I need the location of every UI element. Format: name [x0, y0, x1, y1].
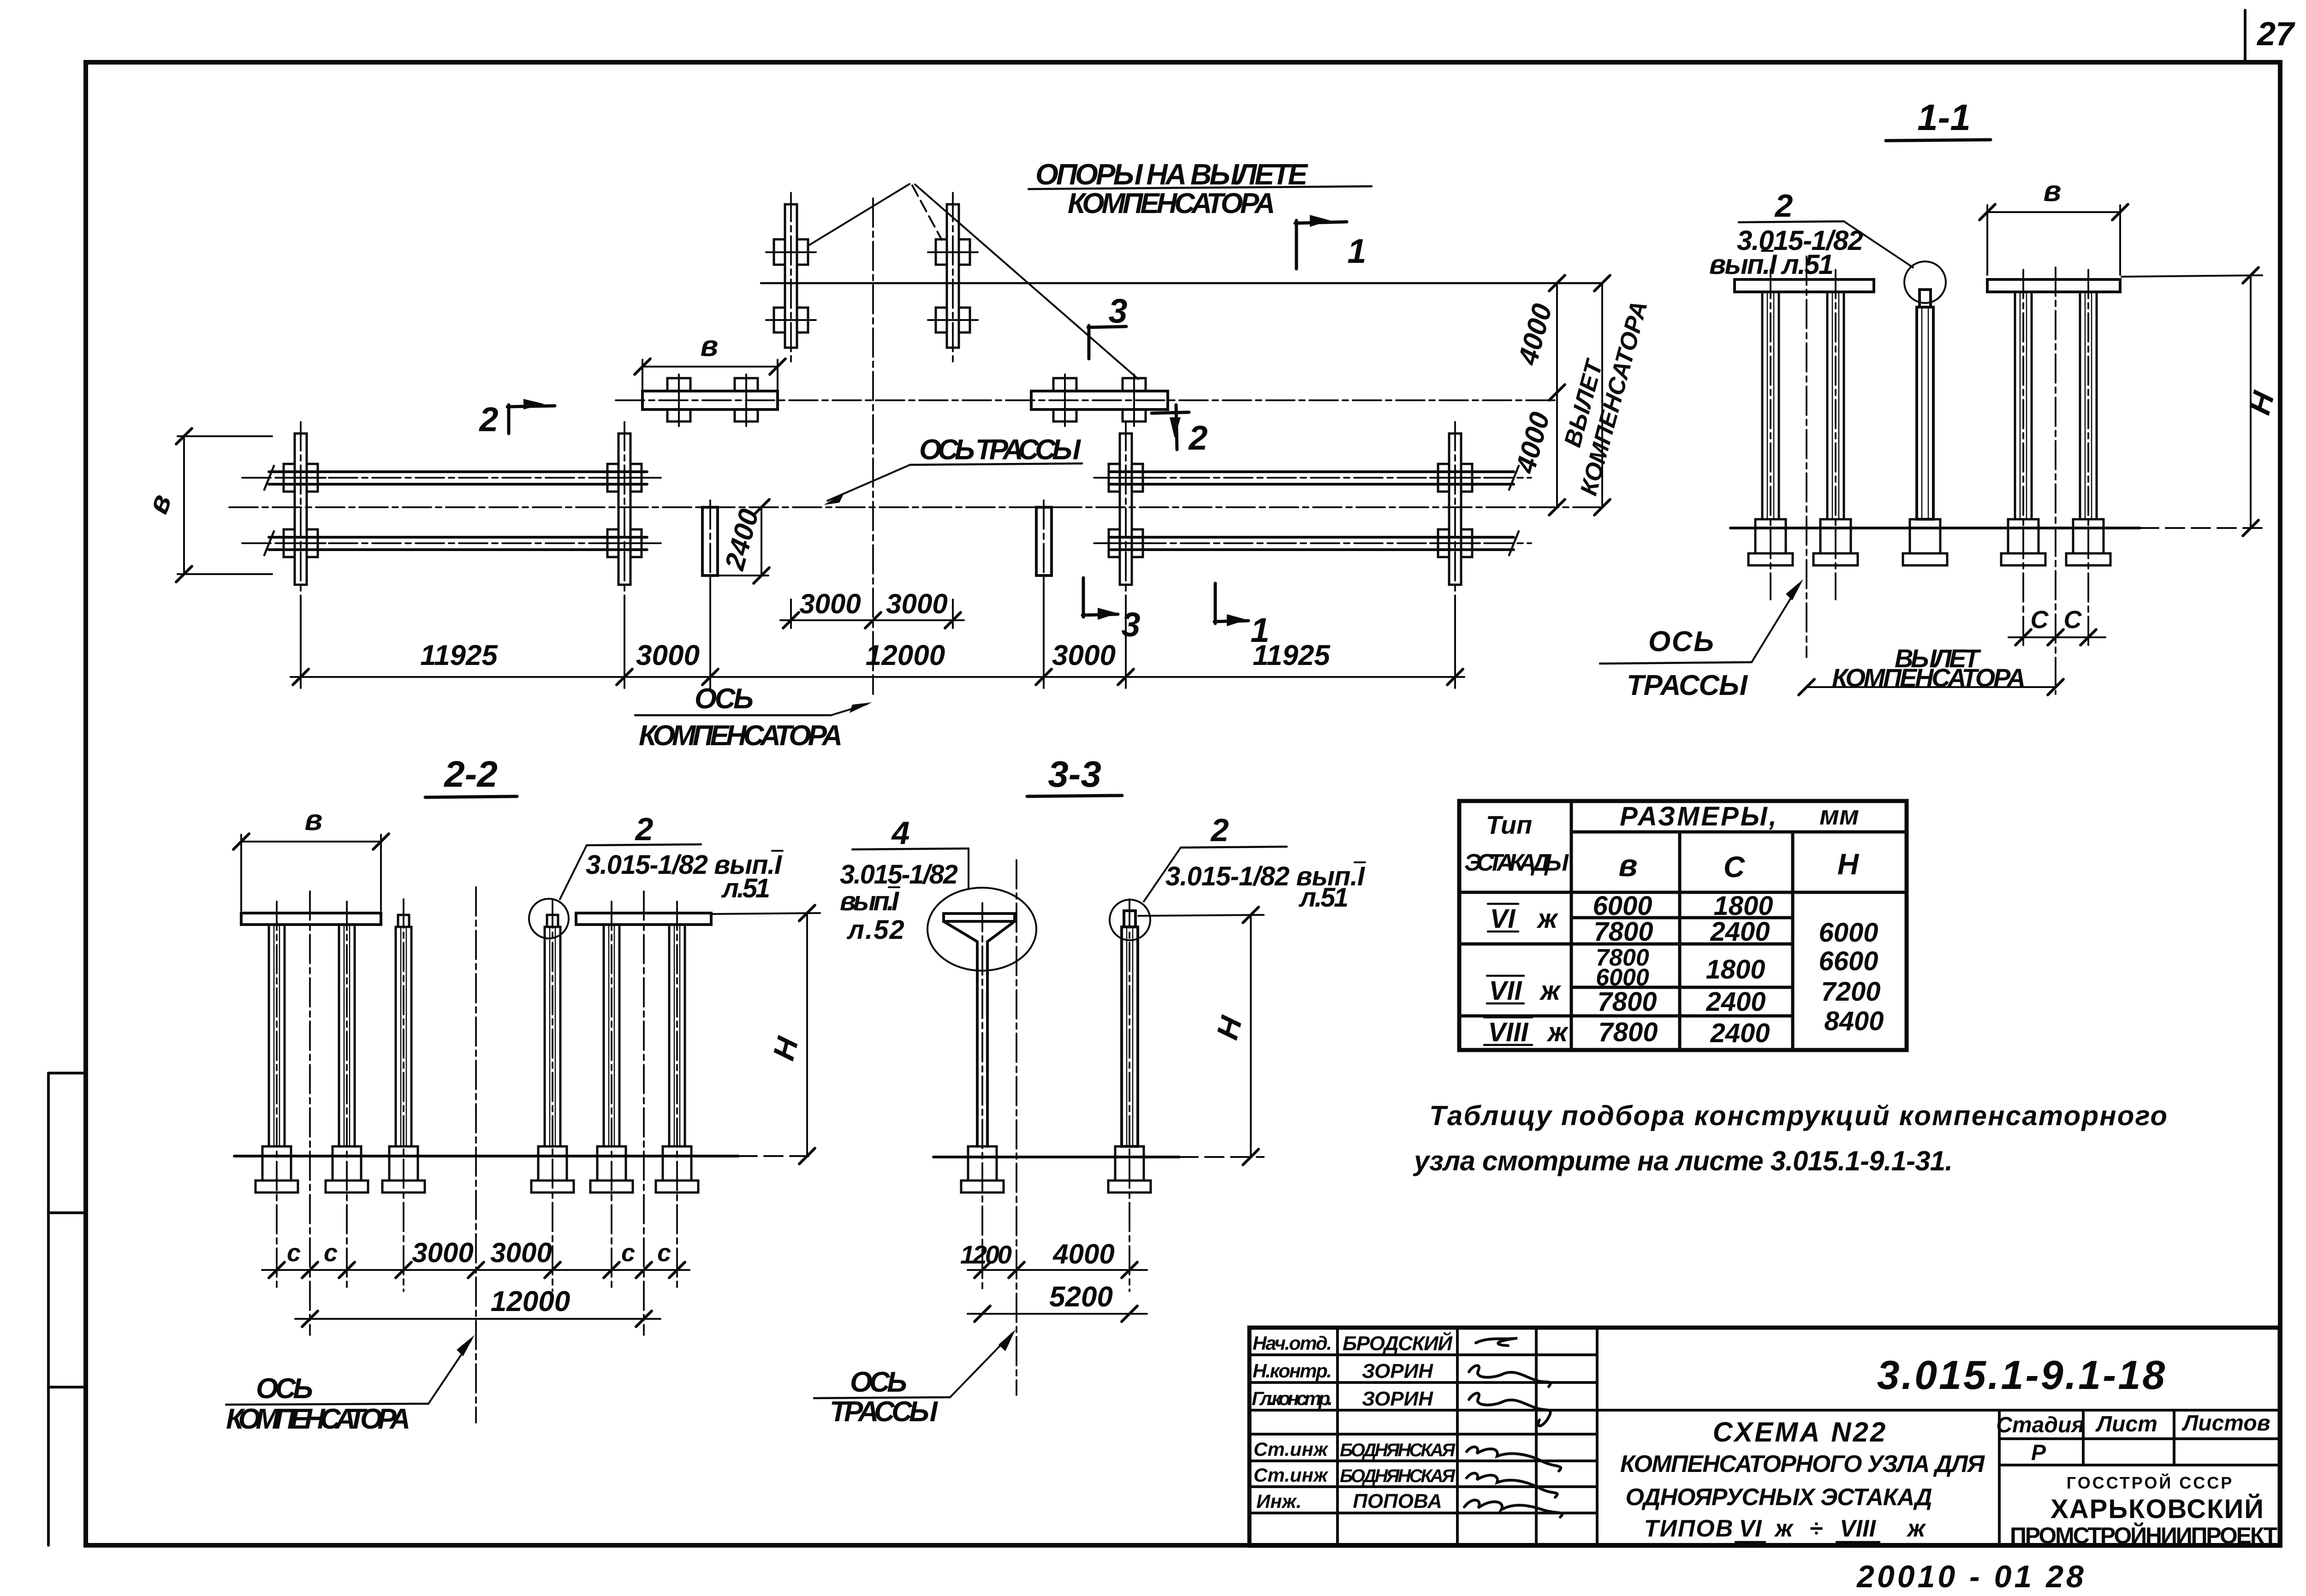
svg-text:2: 2 — [635, 811, 654, 847]
loop lower support bar, left — [642, 391, 778, 409]
svg-text:Гл.констр.: Гл.констр. — [1252, 1388, 1333, 1409]
svg-text:3000: 3000 — [1052, 640, 1116, 671]
svg-text:2: 2 — [1210, 812, 1229, 848]
dimension row с с / 3000 3000 / с с (2-2) — [262, 1237, 689, 1278]
column 6 — [669, 925, 685, 1146]
svg-text:2: 2 — [1774, 188, 1793, 224]
dimension С С — [2009, 606, 2105, 645]
callout 2 / 3.015-1/82 вып.I л.51 (2-2) — [560, 811, 783, 903]
section marker 3 (lower) — [1082, 578, 1141, 644]
svg-text:ОСЬ: ОСЬ — [695, 683, 754, 715]
label ОСЬ КОМПЕНСАТОРА (2-2) — [226, 1335, 475, 1435]
svg-text:2400: 2400 — [1710, 917, 1770, 947]
column 5 — [604, 925, 619, 1146]
bolt cluster on right bar — [1123, 374, 1146, 426]
section marker 3 (upper) — [1088, 292, 1128, 359]
svg-text:3000: 3000 — [636, 640, 700, 671]
pipe-run traverse support, plan, x=3155 — [1430, 422, 1480, 596]
svg-text:VIII: VIII — [1840, 1515, 1877, 1542]
svg-text:÷: ÷ — [1810, 1515, 1823, 1542]
svg-text:СХЕМА N22: СХЕМА N22 — [1713, 1417, 1888, 1448]
svg-text:Н.контр.: Н.контр. — [1253, 1360, 1332, 1382]
svg-text:6600: 6600 — [1819, 946, 1878, 976]
section title 2-2 — [425, 754, 517, 797]
svg-text:5200: 5200 — [1049, 1281, 1113, 1313]
section marker 2 (right of loop) — [1152, 405, 1208, 457]
svg-text:л.52: л.52 — [846, 915, 905, 945]
column 3 (free) — [396, 915, 411, 1146]
underlines for VI / VIII in title — [1735, 1541, 1765, 1543]
svg-text:7200: 7200 — [1821, 977, 1880, 1007]
title block outer border — [1249, 1328, 2280, 1546]
svg-text:ОСЬ: ОСЬ — [1648, 626, 1714, 658]
svg-text:Инж.: Инж. — [1256, 1490, 1302, 1512]
row label VII ж — [1487, 976, 1562, 1006]
left slab 2-2 — [241, 913, 381, 925]
svg-text:2400: 2400 — [719, 506, 765, 574]
svg-text:ж: ж — [1774, 1515, 1794, 1542]
svg-text:3000: 3000 — [886, 588, 947, 619]
svg-text:4000: 4000 — [1052, 1239, 1114, 1270]
ground line 1-1 — [1730, 527, 2140, 529]
svg-text:2: 2 — [1188, 419, 1207, 457]
callout 4 / 3.015-1/82 вып.I л.52 (T column) — [840, 815, 969, 945]
T-column — [944, 914, 1015, 1146]
dimension H (2-2) — [713, 905, 820, 1164]
svg-text:БОДНЯНСКАЯ: БОДНЯНСКАЯ — [1340, 1440, 1456, 1460]
svg-text:1-1: 1-1 — [1917, 97, 1971, 138]
svg-text:Стадия: Стадия — [1996, 1413, 2084, 1437]
svg-text:КОМПЕНСАТОРА: КОМПЕНСАТОРА — [226, 1403, 410, 1435]
upper pipe run, left half — [242, 466, 666, 490]
pipe-run traverse support, plan, x=652 — [276, 422, 326, 596]
dimension в (loop bar) — [635, 329, 785, 390]
svg-text:Н: Н — [766, 1033, 805, 1063]
dimension 5200 (3-3) — [968, 1281, 1147, 1322]
dimension ВЫЛЕТ КОМПЕНСАТОРА vertical — [1559, 275, 1653, 515]
dimension 1200 / 4000 (3-3) — [960, 1239, 1147, 1278]
callout 2 / 3.015-1/82 вып.I л.51 (column 2) — [1144, 812, 1366, 913]
svg-text:VI: VI — [1490, 904, 1516, 934]
dimension в (left, vertical) — [141, 428, 272, 582]
svg-text:в: в — [305, 803, 323, 837]
column A — [1762, 292, 1779, 519]
svg-text:3.015-1/82: 3.015-1/82 — [840, 860, 958, 890]
column C (free standing, with cap) — [1917, 290, 1933, 519]
svg-text:3-3: 3-3 — [1048, 754, 1101, 795]
svg-text:VI: VI — [1739, 1515, 1762, 1542]
column 2 centerline — [1129, 899, 1130, 1291]
loop support beam, plan, x=2066 — [928, 193, 978, 365]
left margin strip — [48, 1073, 86, 1545]
svg-text:с: с — [324, 1239, 338, 1267]
svg-text:с: с — [621, 1239, 635, 1267]
svg-text:4: 4 — [891, 815, 910, 851]
svg-text:3000: 3000 — [490, 1237, 552, 1268]
section marker 1 (lower) — [1214, 583, 1270, 649]
svg-text:ПОПОВА: ПОПОВА — [1353, 1490, 1442, 1513]
svg-text:в: в — [701, 329, 719, 362]
svg-text:ОСЬ: ОСЬ — [256, 1373, 313, 1405]
svg-text:узла смотрите на листе 3.0: узла смотрите на листе 3.015.1-9.1-31. — [1413, 1145, 1953, 1176]
svg-text:VII: VII — [1489, 976, 1523, 1006]
svg-text:11925: 11925 — [1253, 640, 1331, 671]
svg-text:Н: Н — [1210, 1012, 1248, 1043]
signature scribbles — [1464, 1338, 1562, 1517]
pipe-run traverse support, plan, x=1354 — [600, 422, 649, 596]
svg-text:2: 2 — [478, 400, 498, 439]
svg-text:БРОДСКИЙ: БРОДСКИЙ — [1343, 1331, 1453, 1355]
svg-text:3: 3 — [1121, 605, 1140, 644]
svg-text:4000: 4000 — [1512, 301, 1558, 368]
compensator loop inner pipe centerline — [616, 399, 1557, 401]
svg-text:мм: мм — [1819, 801, 1859, 831]
svg-text:4000: 4000 — [1510, 409, 1556, 477]
right slab 2-2 — [576, 913, 711, 925]
svg-text:Ст.инж: Ст.инж — [1254, 1438, 1329, 1460]
svg-text:1200: 1200 — [960, 1240, 1012, 1269]
svg-text:2400: 2400 — [1706, 987, 1765, 1017]
guide support rect 2400, left — [702, 500, 718, 582]
footings 1-1 — [1748, 519, 1793, 565]
label ОСЬ ТРАССЫ (plan) with leader — [824, 434, 1082, 505]
svg-text:КОМПЕНСАТОРНОГО УЗЛА ДЛЯ: КОМПЕНСАТОРНОГО УЗЛА ДЛЯ — [1620, 1451, 1985, 1477]
svg-text:27: 27 — [2256, 16, 2295, 53]
svg-text:вып.I: вып.I — [840, 886, 900, 916]
svg-text:БОДНЯНСКАЯ: БОДНЯНСКАЯ — [1340, 1466, 1456, 1486]
dimension H (3-3) — [1138, 907, 1264, 1165]
table outer border — [1459, 801, 1907, 1050]
svg-text:ж: ж — [1906, 1515, 1926, 1542]
column 1 — [269, 925, 285, 1146]
svg-text:ГОССТРОЙ СССР: ГОССТРОЙ СССР — [2067, 1473, 2234, 1492]
label ОСЬ КОМПЕНСАТОРА (plan) with leader — [635, 683, 872, 752]
svg-text:Таблицу подбора конструкций: Таблицу подбора конструкций компенсаторн… — [1429, 1100, 2167, 1131]
dimension в (left slab 2-2) — [233, 803, 389, 911]
svg-text:7800: 7800 — [1593, 917, 1653, 947]
svg-text:ТРАССЫ: ТРАССЫ — [830, 1396, 939, 1428]
svg-text:Ст.инж: Ст.инж — [1254, 1464, 1329, 1486]
dimension 2400 — [719, 499, 769, 583]
bolt cluster on left bar — [735, 374, 758, 426]
title block verticals — [1337, 1328, 2174, 1546]
svg-text:ХАРЬКОВСКИЙ: ХАРЬКОВСКИЙ — [2050, 1494, 2264, 1524]
column 4 (free, with callout circle) — [545, 915, 560, 1146]
svg-text:3000: 3000 — [799, 588, 861, 619]
svg-text:ОПОРЫ НА ВЫЛЕТЕ: ОПОРЫ НА ВЫЛЕТЕ — [1035, 158, 1308, 191]
svg-text:л.51: л.51 — [721, 873, 770, 903]
compensator axis (ось компенсатора) vertical dash-dot — [872, 198, 874, 694]
leader to right loop support (dashed) — [912, 185, 942, 240]
svg-text:Нач.отд.: Нач.отд. — [1253, 1332, 1332, 1354]
T-column head (callout ellipse) — [927, 888, 1036, 971]
upper pipe run, right half — [1094, 466, 1531, 490]
T-column centerline — [981, 903, 983, 1291]
svg-text:11925: 11925 — [420, 640, 498, 671]
svg-text:ОСЬ: ОСЬ — [850, 1366, 907, 1398]
svg-text:с: с — [657, 1239, 671, 1267]
svg-text:ж: ж — [1539, 976, 1562, 1006]
svg-text:Н: Н — [2242, 387, 2281, 418]
guide support rect 2400, right — [1036, 500, 1052, 582]
dimension 12000 (2-2) — [295, 1286, 660, 1327]
svg-text:КОМПЕНСАТОРА: КОМПЕНСАТОРА — [1832, 663, 2026, 692]
footings 3-3 — [961, 1146, 1004, 1193]
footings 2-2 — [256, 1146, 298, 1193]
column B — [1827, 292, 1844, 519]
right slab centerline / вылет axis — [2055, 267, 2056, 694]
svg-text:1800: 1800 — [1706, 955, 1765, 985]
callout circle on column C — [1904, 261, 1946, 303]
dimension в (right slab) — [1979, 174, 2128, 275]
svg-text:ОДНОЯРУСНЫХ ЭСТАКАД: ОДНОЯРУСНЫХ ЭСТАКАД — [1626, 1484, 1932, 1511]
svg-text:7800: 7800 — [1598, 1017, 1658, 1047]
svg-text:С: С — [1724, 850, 1745, 884]
svg-text:ТРАССЫ: ТРАССЫ — [1627, 670, 1748, 701]
svg-text:ЭСТАКАДЫ: ЭСТАКАДЫ — [1464, 849, 1569, 876]
dimension 4000/4000 vertical — [1510, 275, 1565, 515]
trace axis 3-3 — [1016, 860, 1017, 1395]
svg-text:12000: 12000 — [866, 640, 945, 671]
row label VI ж — [1488, 904, 1559, 934]
section title 1-1 — [1886, 97, 1991, 141]
svg-text:6000: 6000 — [1819, 918, 1878, 948]
trace axis (ось трассы) dash-dot — [229, 506, 1602, 508]
svg-text:С: С — [2064, 606, 2082, 634]
svg-text:Лист: Лист — [2095, 1412, 2157, 1436]
dimension H (right) — [2122, 267, 2281, 536]
svg-text:ТИПОВ: ТИПОВ — [1644, 1515, 1734, 1542]
svg-text:ж: ж — [1536, 904, 1559, 934]
svg-text:3.015.1-9.1-18: 3.015.1-9.1-18 — [1877, 1352, 2167, 1398]
svg-text:Н: Н — [1837, 848, 1860, 881]
label ОСЬ ТРАССЫ (3-3) — [814, 1329, 1016, 1428]
svg-text:Листов: Листов — [2181, 1411, 2270, 1436]
column D — [2015, 292, 2032, 519]
main dimension line 11925/3000/12000/3000/11925 — [291, 582, 1464, 688]
scheme title text — [1620, 1417, 1985, 1542]
row label VIII ж — [1484, 1017, 1569, 1047]
svg-text:Р: Р — [2031, 1441, 2046, 1465]
column centerlines 1-1 — [1770, 270, 1771, 599]
svg-text:вып.I л.51: вып.I л.51 — [1709, 249, 1834, 280]
label ОСЬ ТРАССЫ (section 1-1) — [1600, 579, 1803, 701]
svg-text:8400: 8400 — [1824, 1006, 1884, 1036]
column 2 — [339, 925, 355, 1146]
title block horizontals — [1249, 1355, 2280, 1513]
pipe-run traverse support, plan, x=2441 — [1101, 422, 1151, 596]
svg-text:ж: ж — [1546, 1017, 1569, 1047]
svg-text:с: с — [287, 1239, 301, 1267]
svg-text:в: в — [2044, 174, 2062, 208]
bolt cluster on right bar — [1053, 374, 1076, 426]
stage/sheet header — [1996, 1411, 2270, 1465]
leader to left loop support — [808, 184, 909, 246]
svg-text:VIII: VIII — [1488, 1017, 1529, 1047]
svg-text:2-2: 2-2 — [443, 754, 498, 795]
loop support beam, plan, x=1715 — [766, 193, 816, 365]
roles column — [1252, 1332, 1333, 1512]
bolt cluster on left bar — [667, 374, 690, 426]
leader to right bar cluster — [915, 184, 1138, 379]
svg-text:Тип: Тип — [1486, 810, 1533, 839]
svg-text:в: в — [1618, 848, 1637, 883]
column E — [2080, 292, 2097, 519]
svg-text:3000: 3000 — [412, 1237, 473, 1268]
svg-text:12000: 12000 — [491, 1286, 570, 1317]
svg-text:КОМПЕНСАТОРА: КОМПЕНСАТОРА — [639, 720, 843, 752]
table grid — [1459, 801, 1907, 1050]
callout 2 / 3.015-1/82 вып.I л.51 (section 1-1) — [1709, 188, 1913, 280]
svg-text:ОСЬ ТРАССЫ: ОСЬ ТРАССЫ — [919, 434, 1082, 466]
label ОПОРЫ НА ВЫЛЕТЕ КОМПЕНСАТОРА — [1028, 158, 1372, 220]
section marker 2 (top left) — [478, 399, 555, 439]
compensator loop top pipe line — [761, 282, 1602, 285]
left slab (оголовок) — [1735, 279, 1874, 292]
dimension 3000 3000 (loop) — [780, 588, 964, 628]
svg-text:ПРОМСТРОЙНИИПРОЕКТ: ПРОМСТРОЙНИИПРОЕКТ — [2010, 1522, 2277, 1549]
svg-text:7800: 7800 — [1597, 987, 1657, 1017]
svg-text:в: в — [141, 490, 178, 518]
lower pipe run, left half — [242, 531, 666, 555]
trace axis in section 1-1 — [1806, 256, 1807, 657]
svg-text:РАЗМЕРЫ,: РАЗМЕРЫ, — [1620, 801, 1778, 831]
section marker 1 (upper) — [1295, 215, 1367, 270]
svg-text:КОМПЕНСАТОРА: КОМПЕНСАТОРА — [1068, 188, 1275, 220]
column 2 of section 3-3 (with cap) — [1122, 911, 1138, 1146]
dimension ВЫЛЕТ КОМПЕНСАТОРА (horizontal, below) — [1799, 644, 2063, 695]
svg-text:л.51: л.51 — [1298, 883, 1349, 913]
svg-text:ЗОРИН: ЗОРИН — [1362, 1360, 1433, 1382]
page number separator line — [2244, 10, 2247, 62]
institute name — [2010, 1473, 2277, 1549]
names column — [1340, 1331, 1456, 1513]
ground line 3-3 — [933, 1156, 1179, 1158]
svg-text:2400: 2400 — [1710, 1018, 1770, 1048]
right slab (оголовок) — [1987, 279, 2120, 292]
section title 3-3 — [1027, 754, 1122, 796]
svg-text:С: С — [2031, 606, 2049, 634]
svg-text:3: 3 — [1108, 292, 1127, 330]
svg-text:1: 1 — [1347, 232, 1366, 270]
note text under table — [1413, 1100, 2167, 1176]
centerlines 2-2 — [276, 902, 278, 1291]
ground line 2-2 — [234, 1155, 738, 1157]
loop lower support bar, right — [1031, 391, 1168, 409]
svg-text:ЗОРИН: ЗОРИН — [1362, 1388, 1433, 1410]
svg-text:20010 - 01 28: 20010 - 01 28 — [1856, 1559, 2086, 1594]
lower pipe run, right half — [1094, 531, 1531, 555]
